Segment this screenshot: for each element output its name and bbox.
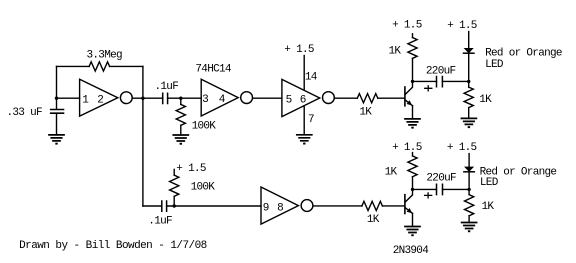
wire U1A output to C2	[133, 97, 163, 99]
resistor 3.3Meg	[89, 62, 110, 71]
inverter U1B output bubble	[241, 92, 253, 104]
svg-text:7: 7	[308, 114, 314, 126]
wire U1D output to R7	[314, 205, 362, 207]
svg-text:1K: 1K	[389, 45, 402, 57]
wire LED1 to node E	[468, 53, 470, 81]
svg-text:100K: 100K	[192, 121, 217, 133]
capacitor 220uF (bottom)	[437, 184, 443, 194]
node H junction	[467, 188, 470, 191]
capacitor .33uF	[51, 110, 64, 114]
wire pin 7 to ground	[303, 106, 305, 135]
resistor 100K (bottom)	[170, 175, 179, 196]
wire C2 to inverter U1B input	[168, 97, 202, 99]
svg-text:2: 2	[97, 94, 103, 106]
capacitor .1uF (bottom)	[162, 201, 167, 211]
ground G5 (Q2 emitter)	[405, 227, 420, 233]
node B junction	[141, 97, 144, 100]
svg-text:3.3Meg: 3.3Meg	[87, 50, 123, 62]
svg-text:1K: 1K	[479, 94, 492, 106]
svg-text:3: 3	[202, 94, 208, 106]
inverter U1C output bubble	[323, 92, 335, 104]
wire node B down	[142, 98, 144, 206]
svg-text:100K: 100K	[191, 182, 216, 194]
resistor 1K (top series)	[357, 94, 378, 103]
node E junction	[467, 80, 470, 83]
svg-text:Drawn by - Bill Bowden - 1/7/0: Drawn by - Bill Bowden - 1/7/08	[19, 240, 207, 252]
svg-text:Red or Orange: Red or Orange	[485, 47, 562, 59]
ground G1	[49, 135, 64, 141]
wire R5 to ground	[468, 108, 470, 119]
wire node A to inverter U1A input	[57, 97, 80, 99]
svg-text:14: 14	[305, 72, 318, 84]
wire +1.5 to R8	[412, 153, 414, 156]
inverter U1C (pins 5-6)	[282, 79, 320, 116]
wire U1B output to U1C input	[253, 97, 282, 99]
inverter U1D (pins 9-8)	[261, 187, 298, 224]
wire node C to R2	[180, 98, 182, 104]
svg-text:LED: LED	[485, 59, 504, 71]
capacitor .1uF (top)	[163, 93, 168, 103]
resistor 1K (upper LED)	[464, 87, 473, 108]
wire feedback down to node B	[142, 66, 144, 98]
wire node G to C5	[413, 188, 437, 190]
resistor 1K (upper collector)	[408, 38, 417, 59]
svg-text:5: 5	[286, 94, 292, 106]
wire +1.5 to LED2	[468, 154, 470, 168]
resistor 1K (bottom series)	[362, 201, 383, 210]
capacitor 220uF (top)	[437, 77, 443, 87]
wire C4 to inverter U1D input	[167, 205, 261, 207]
node C junction	[179, 97, 182, 100]
wire C3 to node E	[442, 80, 468, 82]
wire feedback top left	[57, 65, 90, 67]
svg-text:2N3904: 2N3904	[393, 245, 430, 257]
resistor 1K (lower collector)	[408, 156, 417, 177]
inverter U1A (pins 1-2)	[80, 79, 118, 116]
svg-text:1: 1	[82, 94, 89, 106]
svg-text:6: 6	[300, 94, 306, 106]
svg-text:+ 1.5: + 1.5	[447, 20, 477, 32]
svg-text:220uF: 220uF	[426, 66, 456, 78]
wire U1C output to R3	[335, 97, 357, 99]
wire feedback top right	[110, 65, 143, 67]
inverter U1B (pins 3-4)	[201, 79, 238, 116]
LED D2 (Red or Orange)	[466, 167, 473, 171]
wire pin 14 supply	[303, 56, 305, 91]
svg-text:+ 1.5: + 1.5	[392, 142, 422, 154]
wire R8 to node G	[412, 177, 414, 190]
svg-text:.33 uF: .33 uF	[7, 107, 43, 119]
svg-text:+ 1.5: + 1.5	[176, 163, 206, 175]
node D (Q1 collector)	[411, 80, 414, 83]
wire node H to R9	[468, 189, 470, 194]
svg-text:1K: 1K	[367, 214, 380, 226]
svg-text:8: 8	[277, 202, 283, 214]
svg-text:1K: 1K	[385, 167, 398, 179]
ground G3	[297, 135, 312, 141]
wire node-A up to feedback	[56, 66, 58, 98]
ground G2	[173, 135, 188, 141]
wire R6 to node F	[173, 196, 175, 206]
svg-text:LED: LED	[480, 177, 499, 189]
svg-text:+ 1.5: + 1.5	[392, 20, 422, 32]
svg-text:.1uF: .1uF	[155, 81, 179, 93]
plus sign (bottom 220uF polarity)	[425, 193, 432, 198]
wire +1.5 to LED1	[468, 32, 470, 49]
wire +1.5 to R6	[173, 169, 175, 175]
wire C1 to ground	[56, 113, 58, 135]
wire +1.5 to R4	[412, 34, 414, 38]
svg-text:1K: 1K	[482, 201, 495, 213]
wire R3 to Q1 base	[378, 97, 404, 99]
ground G4 (Q1 emitter)	[405, 119, 420, 125]
inverter U1A output bubble	[120, 92, 132, 104]
resistor 100K (top)	[176, 104, 185, 125]
svg-text:+ 1.5: + 1.5	[284, 44, 314, 56]
inverter U1D output bubble	[301, 200, 313, 212]
transistor Q1 (2N3904 upper)	[404, 87, 406, 106]
resistor 1K (lower LED)	[465, 195, 474, 216]
svg-text:.1uF: .1uF	[148, 216, 172, 228]
svg-text:220uF: 220uF	[426, 173, 456, 185]
node A junction	[55, 97, 58, 100]
transistor Q2 (2N3904)	[404, 195, 406, 214]
node F junction	[173, 204, 176, 207]
wire to C4	[143, 205, 162, 207]
wire R7 to Q2 base	[382, 205, 404, 207]
ground G7	[461, 118, 476, 124]
plus sign (top 220uF polarity)	[425, 86, 432, 91]
svg-text:+ 1.5: + 1.5	[447, 142, 477, 154]
wire R2 to ground	[180, 125, 182, 135]
wire node E to R5	[468, 82, 470, 88]
wire LED2 to node H	[468, 172, 470, 189]
svg-text:74HC14: 74HC14	[195, 64, 232, 76]
wire node D to C3	[413, 80, 437, 82]
wire R4 to node D	[412, 58, 414, 81]
svg-text:9: 9	[263, 202, 269, 214]
wire R9 to ground	[468, 216, 470, 223]
wire C5 to node H	[443, 188, 470, 190]
LED D1 (Red or Orange)	[465, 49, 472, 53]
ground G6	[462, 223, 477, 229]
node G (Q2 collector)	[411, 188, 414, 191]
svg-text:1K: 1K	[359, 107, 372, 119]
wire node A down to C1	[56, 98, 58, 109]
